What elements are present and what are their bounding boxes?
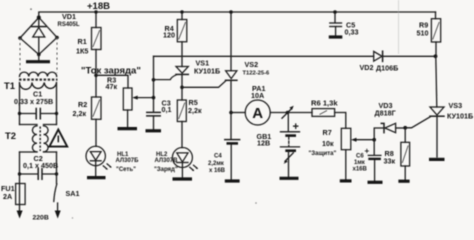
svg-text:С4: С4 [214,154,222,160]
resistor R3 (pot) [96,75,154,127]
ground VS3 [429,158,445,161]
ground C5 [329,35,343,38]
resistor R9 [417,12,441,56]
battery GB1 [257,113,300,177]
node R9/VD2/VS3 [434,54,438,58]
svg-text:АЛ307Б: АЛ307Б [116,158,140,164]
svg-text:А: А [252,105,263,122]
resistor R6 [311,99,338,117]
thyristor VS2 [182,10,270,87]
node VD3/R8/VS3 gate [403,126,407,130]
svg-text:R6 1,3k: R6 1,3k [311,99,338,108]
wire bridge AC right (dashed scan) [56,38,58,74]
svg-text:SA1: SA1 [66,189,80,198]
resistor R5 [177,98,202,122]
ground R3 [118,127,138,130]
battery clamp arrow (top) [286,111,290,115]
LED HL1 [86,119,112,175]
ground GB1 [280,177,299,180]
svg-text:х16В: х16В [353,166,368,172]
wire 220V right arrow [55,211,61,219]
ground C3 [146,129,162,132]
svg-text:Д818Г: Д818Г [375,108,396,117]
svg-text:КУ101Б: КУ101Б [447,111,473,120]
wire R1 to node [95,50,97,98]
ground R7 [340,179,352,182]
transformer T1 secondary winding [20,72,57,76]
resistor R7 (pot "Zashchita") [309,128,375,179]
svg-text:R7: R7 [323,128,332,137]
svg-text:R1: R1 [78,37,87,46]
switch SA1 [54,174,80,212]
svg-text:С6: С6 [356,154,364,160]
svg-text:220В: 220В [33,215,49,222]
ground R8 [398,180,409,183]
svg-text:+: + [293,121,299,133]
ground HL2 [173,177,193,180]
svg-text:Т122-25-6: Т122-25-6 [243,70,271,76]
scan crease artifact [398,0,400,54]
svg-text:"Защита": "Защита" [309,151,337,157]
svg-text:"Сеть": "Сеть" [116,167,136,173]
svg-text:0,1 x 450В: 0,1 x 450В [23,161,58,170]
svg-text:2,2к: 2,2к [73,109,87,118]
node Tok zaryada [94,74,98,78]
capacitor C2 [18,154,58,179]
svg-text:R2: R2 [78,100,87,109]
ground C6 [368,181,383,184]
svg-text:33к: 33к [384,157,396,166]
ammeter PA1 [231,84,312,125]
transformer T1 core [19,78,58,80]
wire R6 to R7 [335,113,346,129]
wire +18V top rail [39,12,436,18]
svg-text:0,33: 0,33 [345,28,359,37]
label HL1 [116,152,140,173]
capacitor C5 [330,10,359,36]
ground HL1 [87,176,106,179]
capacitor C1 [14,90,58,119]
noise specks [30,8,32,10]
wire mid rail (C3 node to VD2/R9) [154,55,436,57]
svg-text:"Заряд": "Заряд" [154,167,178,173]
battery clamp arrow (bottom) [285,152,294,162]
capacitor C6 [353,140,381,181]
wire left vertical to C2 [19,152,21,174]
diode VD2 [360,51,399,72]
svg-text:1мк: 1мк [354,160,365,166]
resistor R8 [384,128,410,180]
svg-text:2А: 2А [3,192,12,201]
ground C4 [225,179,240,182]
svg-text:Т2: Т2 [5,131,16,142]
wire VS2 cathode down [230,81,232,140]
svg-text:VS2: VS2 [245,60,259,69]
wire C3 node vertical [153,56,155,112]
wire R7 wiper node to VD3 [374,128,383,140]
svg-text:КУ101Б: КУ101Б [194,67,220,76]
resistor R2 [73,97,102,119]
resistor R4 [163,10,187,42]
wire right vertical to C2 [56,152,58,174]
svg-text:х 16В: х 16В [209,168,226,174]
svg-text:2,2к: 2,2к [188,106,202,115]
svg-text:+18В: +18В [87,1,110,12]
svg-text:0,33 x 275В: 0,33 x 275В [14,97,53,106]
resistor R1 [76,10,101,55]
wire 220V left arrow [17,211,23,219]
svg-text:RS405L: RS405L [58,22,80,28]
svg-text:VD2: VD2 [360,63,374,72]
svg-text:120: 120 [163,31,175,40]
thyristor VS1 [154,42,221,80]
LED HL2 [172,122,198,178]
svg-text:Т1: Т1 [4,81,16,92]
wire VS1 cathode down [181,75,183,100]
svg-text:510: 510 [417,29,429,38]
svg-text:VD1: VD1 [62,12,76,21]
wire mains right vertical [56,84,58,125]
svg-text:1К5: 1К5 [76,47,88,56]
transformer T1 primary winding [20,83,57,90]
svg-text:47к: 47к [106,82,118,91]
fuse FU1 [1,174,25,212]
zener diode VD3 [375,101,406,133]
svg-text:0,1: 0,1 [162,105,172,114]
svg-text:10А: 10А [251,91,264,100]
thyristor VS3 [405,56,473,157]
svg-text:+: + [365,147,370,156]
svg-text:12В: 12В [257,138,270,147]
transformer T2 [5,125,57,153]
diode bridge VD1 [18,12,80,56]
svg-text:VS3: VS3 [449,101,463,110]
svg-text:10к: 10к [322,139,334,148]
warning triangle [49,130,67,147]
capacitor C4 [208,140,240,180]
wire bridge AC left (dashed scan) [19,38,21,73]
svg-text:Д106Б: Д106Б [376,63,398,72]
capacitor C3 [147,99,172,130]
svg-text:2,2мк: 2,2мк [208,161,224,167]
ground (bridge output) [38,55,40,61]
svg-text:АЛ307В: АЛ307В [155,158,179,164]
wire mains left vertical [19,84,21,125]
label HL2 [154,152,178,173]
